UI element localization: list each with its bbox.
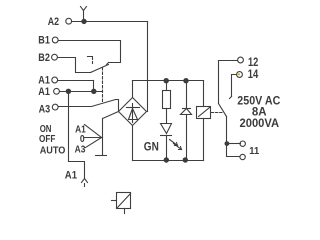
node dot A1 join <box>91 89 96 94</box>
switch blade B2 <box>91 65 109 73</box>
bridge inner diode vertical <box>132 104 134 123</box>
wire B1 horizontal <box>59 40 121 42</box>
svg-text:A3: A3 <box>39 103 51 115</box>
LED arrow 2 <box>174 144 182 150</box>
bottom bus wire <box>133 160 204 162</box>
terminal 11 upper circle <box>240 141 245 146</box>
fork arm left <box>81 7 84 11</box>
wire to 11 lower <box>227 144 240 157</box>
terminal A2 circle <box>66 18 72 24</box>
svg-text:A1: A1 <box>38 75 50 87</box>
wire B1 branch down <box>109 41 121 63</box>
wire A3 horizontal <box>59 106 92 108</box>
bridge rectifier diamond <box>119 98 147 126</box>
freewheel diode bottom lead <box>186 115 188 161</box>
switch blade A3 <box>92 100 116 107</box>
relay contact blade <box>219 104 227 117</box>
terminal 12 circle <box>238 57 244 63</box>
case symbol box <box>117 193 131 209</box>
wire 14 to contact <box>232 75 237 97</box>
freewheel diode triangle <box>181 109 192 115</box>
svg-text:B1: B1 <box>38 35 50 47</box>
node dot A1 lower left <box>66 89 71 94</box>
node dot bus resistor <box>164 78 169 83</box>
terminal A1 upper circle <box>52 77 58 83</box>
node dot bus diode <box>183 78 188 83</box>
terminal 11 lower circle <box>240 154 245 159</box>
wire A1 upper down <box>93 81 95 92</box>
svg-text:A1: A1 <box>38 86 50 98</box>
mechanical link dash upper <box>92 62 94 64</box>
wire A2 feed down <box>147 22 149 112</box>
svg-text:B2: B2 <box>38 52 50 64</box>
resistor top lead <box>166 81 168 91</box>
resistor bottom lead <box>166 109 168 124</box>
LED triangle <box>161 124 172 134</box>
bridge inner diode bar <box>127 107 140 109</box>
fork arm right <box>84 7 87 11</box>
svg-text:OFF: OFF <box>39 133 56 145</box>
selector lever diagonal top <box>103 112 119 119</box>
terminal B1 circle <box>52 37 58 43</box>
svg-text:A1: A1 <box>65 169 77 181</box>
relay coil box <box>197 107 211 119</box>
case symbol bottom stub <box>124 209 126 214</box>
node yellow dot 14 <box>238 73 240 75</box>
svg-text:AUTO: AUTO <box>40 144 66 156</box>
relay coil bottom lead <box>203 119 205 161</box>
wire 12 to contact <box>219 61 238 104</box>
selector lever T-bar <box>96 155 107 157</box>
LED arrow 1 <box>170 140 178 146</box>
arrow head A1 bottom <box>82 179 88 183</box>
node dot bus diode bottom <box>183 157 188 162</box>
contact tick 14 <box>230 97 232 99</box>
wire A1 lower horizontal <box>60 91 103 93</box>
selector tick to 0 <box>85 137 102 139</box>
freewheel diode cathode bar <box>183 108 191 110</box>
node dot bus LED bottom <box>164 157 169 162</box>
contact hook fixed <box>88 57 93 60</box>
wire A3 contact to bridge <box>116 100 119 112</box>
top bus wire <box>133 80 204 82</box>
contact tick B1 end <box>107 63 109 65</box>
relay coil diagonal <box>199 108 210 117</box>
mechanical link dashed vertical <box>102 68 104 103</box>
case symbol left stub <box>112 200 117 202</box>
freewheel diode top lead <box>186 81 188 109</box>
terminal A3 circle <box>52 104 58 110</box>
wire B2 horizontal <box>58 57 76 59</box>
wire fork stem up from A2 <box>83 11 85 22</box>
wire A1 bottom stub <box>84 184 86 187</box>
relay contact common wire <box>226 117 228 144</box>
svg-text:GN: GN <box>144 140 159 154</box>
selector tick to A3 <box>86 138 102 148</box>
wire to 11 upper <box>227 143 241 145</box>
case symbol diagonal <box>118 194 131 208</box>
LED cathode bar <box>161 135 172 137</box>
terminal 14 circle <box>237 72 243 78</box>
wire bridge top to bus <box>132 81 134 98</box>
wire A2 horizontal <box>72 21 148 23</box>
svg-text:2000VA: 2000VA <box>240 116 280 130</box>
svg-text:A2: A2 <box>48 16 59 28</box>
relay coil top lead <box>203 81 205 107</box>
resistor body <box>163 91 171 109</box>
selector tick to A1 <box>85 125 102 138</box>
node dot 11 <box>225 141 230 146</box>
svg-text:14: 14 <box>248 67 259 81</box>
bridge inner diode triangle <box>129 109 138 120</box>
node junction dot A2 <box>81 19 86 24</box>
terminal B2 circle <box>52 54 58 60</box>
dashed actuation coil to blade <box>212 112 224 114</box>
wire A1 down to bottom <box>69 92 85 179</box>
wire bridge bottom to bus <box>132 126 134 161</box>
terminal A1 lower circle <box>54 88 60 94</box>
wire B2 down jog <box>76 58 91 73</box>
svg-text:A3: A3 <box>75 144 86 156</box>
svg-text:11: 11 <box>249 145 259 157</box>
LED bottom lead <box>166 136 168 161</box>
selector lever vertical <box>102 119 104 156</box>
wire A1 upper horizontal <box>58 80 94 82</box>
